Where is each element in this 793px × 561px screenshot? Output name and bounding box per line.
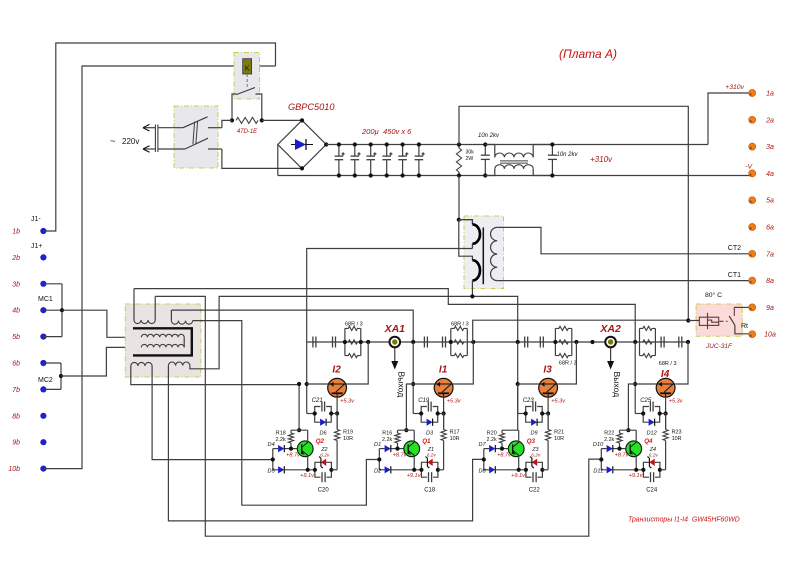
- transistor I2 (IGBT): [328, 378, 347, 397]
- svg-text:+5.3v: +5.3v: [340, 399, 355, 405]
- capacitor C21: [315, 407, 321, 414]
- pin 3a: [749, 143, 756, 150]
- svg-text:5b: 5b: [12, 334, 20, 341]
- node loop left I3: [524, 411, 528, 415]
- wire Q emitter Q2: [307, 456, 309, 470]
- pin 1b: [40, 228, 46, 234]
- wire gate drop I4: [634, 342, 636, 414]
- winding sense row 2: [141, 344, 184, 347]
- winding secondary: [491, 227, 498, 280]
- wire R to loop2 I1: [438, 469, 444, 471]
- svg-text:D12: D12: [646, 431, 657, 437]
- node loop right I3: [540, 411, 544, 415]
- resistor R19 10R: [335, 430, 340, 441]
- pin 7a: [749, 250, 756, 257]
- svg-text:3a: 3a: [766, 144, 774, 151]
- svg-text:Q4: Q4: [644, 438, 653, 445]
- thermal switch enclosure JUC-31F: [696, 304, 742, 336]
- svg-text:D4: D4: [268, 442, 275, 448]
- svg-text:(Плата А): (Плата А): [559, 47, 617, 61]
- capacitor rail C (I3 b): [539, 337, 541, 348]
- svg-text:D5: D5: [268, 469, 276, 475]
- svg-text:10n 2kv: 10n 2kv: [478, 133, 500, 139]
- pin 8a: [749, 277, 756, 284]
- svg-text:R21: R21: [554, 430, 564, 436]
- svg-text:10b: 10b: [8, 466, 20, 473]
- node Q emitter join Q1: [412, 468, 416, 472]
- svg-text:I1: I1: [439, 365, 448, 376]
- node I3 gate junction: [516, 340, 520, 344]
- node gate I2: [305, 382, 309, 386]
- node thermal tap: [686, 318, 690, 322]
- capacitor 200u 450v #1: [338, 145, 340, 157]
- capacitor 10n 2kv #2: [551, 145, 553, 156]
- wire Q collector feed Q2: [298, 384, 300, 430]
- wire +310v to pin 1a: [708, 93, 749, 145]
- transistor Q3: [508, 441, 524, 457]
- wire primary bottom: [471, 281, 473, 297]
- wire P2 feed: [459, 220, 473, 261]
- svg-text:+9.1v: +9.1v: [300, 473, 315, 479]
- svg-text:68R / 3: 68R / 3: [559, 361, 577, 367]
- winding W2: [170, 310, 172, 321]
- svg-text:8a: 8a: [766, 278, 774, 285]
- svg-text:10a: 10a: [764, 332, 776, 339]
- svg-text:+8.7v: +8.7v: [615, 452, 630, 458]
- wire W3-left to I2 gate: [131, 366, 299, 385]
- pin 6a: [749, 224, 756, 231]
- diode D3: [421, 414, 426, 423]
- relay coil K: [243, 59, 252, 74]
- svg-text:Z2: Z2: [320, 447, 327, 453]
- wire Q collector Q3: [518, 430, 520, 442]
- wire -DC bottom rail: [278, 175, 752, 177]
- capacitor 10n 2kv #1: [484, 145, 486, 156]
- wire +DC top rail: [326, 144, 708, 146]
- diode D8: [489, 466, 495, 473]
- diode D10: [607, 445, 613, 452]
- diode D6: [315, 414, 320, 423]
- svg-text:200µ 450v x 6: 200µ 450v x 6: [361, 127, 412, 136]
- svg-text:9a: 9a: [766, 305, 774, 312]
- winding driver primary strap: [133, 328, 192, 355]
- wire pole1 to 47D-1E: [222, 120, 232, 127]
- svg-text:XA1: XA1: [384, 323, 406, 335]
- node D anodes I3: [482, 457, 486, 461]
- wire mains L arrow: [143, 127, 155, 129]
- node base Q4: [617, 447, 621, 451]
- wire Q emitter Q3: [518, 456, 520, 470]
- node primary top: [457, 218, 461, 222]
- node 47D-1E right: [260, 118, 264, 122]
- resistor R16 2.2k: [395, 433, 400, 443]
- transistor Q1: [404, 441, 420, 457]
- node loop2 right I3: [540, 468, 544, 472]
- wire W4-right net: [190, 296, 518, 368]
- svg-text:I2: I2: [332, 365, 341, 376]
- wire emitter I2: [336, 397, 338, 429]
- node base Q3: [500, 447, 504, 451]
- svg-text:8b: 8b: [12, 413, 20, 420]
- capacitor rail C (I4 b): [678, 337, 680, 348]
- svg-text:R18: R18: [276, 431, 286, 437]
- svg-text:2.2k: 2.2k: [486, 437, 496, 443]
- svg-text:2.2k: 2.2k: [382, 437, 392, 443]
- capacitor 200u 450v #6: [418, 145, 420, 157]
- svg-text:XA2: XA2: [599, 323, 621, 335]
- diode D12: [643, 414, 648, 423]
- wire collector bar Q4: [620, 429, 637, 431]
- svg-text:9b: 9b: [12, 440, 20, 447]
- resistor network 68R/3: [344, 328, 346, 355]
- capacitor rail C (I4 a): [660, 337, 662, 348]
- svg-text:1b: 1b: [12, 229, 20, 236]
- wire loop left I4: [635, 413, 643, 415]
- capacitor C22: [526, 470, 532, 477]
- wire Q emitter Q1: [413, 456, 415, 470]
- choke coupling bars: [500, 160, 528, 162]
- wire loop right I4: [660, 413, 666, 415]
- svg-text:Z4: Z4: [649, 447, 656, 453]
- node rail mid: [590, 340, 594, 344]
- diode D2: [385, 466, 391, 473]
- node base Q2: [289, 447, 293, 451]
- resistor R20 2.2k: [499, 433, 504, 443]
- capacitor rail C (I3 a): [524, 337, 526, 348]
- svg-text:R17: R17: [450, 430, 460, 436]
- wire gate drop I3: [517, 342, 519, 414]
- node MC1: [60, 308, 64, 312]
- node loop right I4: [658, 411, 662, 415]
- resistor R21 10R: [546, 430, 551, 441]
- capacitor C24: [643, 470, 649, 477]
- svg-text:68R / 3: 68R / 3: [659, 361, 677, 367]
- wire loop right I2: [331, 413, 337, 415]
- wire loop left I2: [307, 413, 315, 415]
- svg-text:D11: D11: [593, 469, 603, 475]
- wire MC2 to driver transformer: [61, 347, 141, 376]
- diode D1: [385, 445, 391, 452]
- node emitter I4: [664, 411, 668, 415]
- svg-text:Q3: Q3: [527, 438, 536, 445]
- svg-text:Транзисторы I1-I4 GW45HF60WD: Транзисторы I1-I4 GW45HF60WD: [628, 517, 740, 524]
- wire 47D-1E to bridge: [262, 119, 302, 121]
- wire output rail: [307, 341, 688, 343]
- pin 4b: [40, 307, 46, 313]
- capacitor C18: [421, 470, 427, 477]
- zener Z2 6.2v: [315, 462, 321, 470]
- svg-text:R19: R19: [343, 430, 353, 436]
- wire gate I2: [307, 383, 328, 385]
- svg-text:+310v: +310v: [590, 155, 613, 164]
- transistor Q4: [626, 441, 642, 457]
- svg-text:I3: I3: [543, 365, 552, 376]
- node gate I1: [411, 382, 415, 386]
- node Q emitter join Q4: [634, 468, 638, 472]
- node I4 gate junction: [633, 340, 637, 344]
- resistor R17 10R: [441, 430, 446, 441]
- resistor network 68R/3: [450, 328, 452, 355]
- svg-text:D6: D6: [320, 431, 328, 437]
- capacitor C20: [315, 470, 321, 477]
- svg-text:10R: 10R: [554, 436, 564, 442]
- svg-text:7b: 7b: [12, 387, 20, 394]
- capacitor 200u 450v #4: [386, 145, 388, 157]
- wire primary top feed: [458, 176, 460, 220]
- thermal element: [699, 317, 718, 325]
- svg-text:6.2v: 6.2v: [320, 452, 330, 458]
- resistor network 68R/3: [639, 328, 641, 355]
- pin 9a: [749, 304, 756, 311]
- wire loop right I1: [438, 413, 444, 415]
- svg-text:10R: 10R: [343, 436, 353, 442]
- node emitter I2: [335, 411, 339, 415]
- wire W2-left net: [171, 310, 413, 342]
- svg-text:JUC-31F: JUC-31F: [705, 343, 733, 350]
- node loop2 right I1: [436, 468, 440, 472]
- node I2 collector tap: [366, 340, 370, 344]
- node loop right I1: [436, 411, 440, 415]
- node Q emitter join Q3: [517, 468, 521, 472]
- node rail right end: [686, 340, 690, 344]
- svg-text:D8: D8: [479, 469, 487, 475]
- svg-text:Z1: Z1: [427, 447, 434, 453]
- svg-text:2b: 2b: [11, 255, 20, 262]
- wire emitter I3: [547, 397, 549, 429]
- driver transformer enclosure: [125, 304, 201, 377]
- node loop left I2: [313, 411, 317, 415]
- wire D anode bracket I2: [273, 448, 278, 450]
- svg-text:3b: 3b: [12, 281, 20, 288]
- wire gate I3: [518, 383, 539, 385]
- wire base line Q2: [284, 448, 297, 450]
- svg-text:6b: 6b: [12, 361, 20, 368]
- wire W4-left net: [168, 366, 483, 521]
- svg-text:GBPC5010: GBPC5010: [288, 102, 335, 112]
- winding W4: [168, 362, 190, 366]
- wire pole2 to bridge AC2: [222, 149, 302, 168]
- capacitor 200u 450v #2: [354, 145, 356, 157]
- wire emitter line I2: [284, 469, 315, 471]
- resistor R18 2.2k: [288, 433, 293, 443]
- pin 9b: [40, 439, 46, 445]
- wire collector bar Q3: [502, 429, 519, 431]
- wire collector bar Q2: [291, 429, 308, 431]
- node 47D-1E left: [230, 118, 234, 122]
- svg-text:47D-1E: 47D-1E: [237, 129, 258, 135]
- svg-text:R16: R16: [382, 431, 392, 437]
- node loop left I4: [641, 411, 645, 415]
- pin 5a: [749, 197, 756, 204]
- svg-text:+8.7v: +8.7v: [497, 452, 512, 458]
- node D anodes I2: [271, 457, 275, 461]
- wire D anode bracket I3: [484, 448, 489, 450]
- pin 6b: [40, 360, 46, 366]
- pin 5b: [40, 334, 46, 340]
- svg-text:+8.7v: +8.7v: [286, 452, 301, 458]
- capacitor rail C (I2 b): [332, 337, 334, 348]
- svg-text:D9: D9: [531, 431, 538, 437]
- wire R to loop2 I2: [331, 469, 337, 471]
- node I1 gate junction: [411, 340, 415, 344]
- node bridge AC2: [300, 166, 304, 170]
- winding W3: [131, 362, 152, 366]
- svg-text:Rt: Rt: [741, 323, 748, 330]
- svg-text:7a: 7a: [766, 251, 774, 258]
- thermal contact: [733, 307, 735, 316]
- wire sense series link: [183, 337, 185, 347]
- svg-text:R22: R22: [604, 431, 614, 437]
- svg-text:MC2: MC2: [38, 377, 53, 384]
- svg-text:4a: 4a: [766, 171, 774, 178]
- resistor R23 10R: [663, 430, 668, 441]
- wire MC2 bracket: [43, 362, 61, 364]
- svg-text:2.2k: 2.2k: [275, 437, 285, 443]
- node base Q1: [395, 447, 399, 451]
- wire collector bar Q1: [398, 429, 415, 431]
- node D anodes I1: [377, 457, 381, 461]
- wire mains N arrow: [143, 148, 155, 150]
- svg-text:220v: 220v: [122, 137, 139, 146]
- svg-text:1a: 1a: [766, 91, 774, 98]
- svg-text:2W: 2W: [466, 156, 474, 162]
- wire emitter line I4: [613, 469, 644, 471]
- wire R to loop2 I4: [660, 469, 666, 471]
- svg-text:2.2k: 2.2k: [604, 437, 614, 443]
- node loop2 right I2: [329, 468, 333, 472]
- svg-text:C18: C18: [424, 488, 436, 494]
- wire emitter line I3: [495, 469, 526, 471]
- node emitter I1: [442, 411, 446, 415]
- svg-text:D10: D10: [593, 442, 604, 448]
- switch pole 2: [158, 148, 185, 150]
- capacitor 200u 450v #3: [370, 145, 372, 157]
- pin 10b: [40, 466, 46, 472]
- svg-text:6.2v: 6.2v: [427, 452, 437, 458]
- pin 2a: [749, 116, 756, 123]
- inductor common-mode choke bottom: [485, 169, 495, 176]
- node D anodes I4: [599, 457, 603, 461]
- node rail R30k top: [457, 142, 461, 146]
- svg-text:C23: C23: [523, 398, 535, 404]
- connector XA1: [390, 337, 401, 348]
- svg-text:C25: C25: [640, 398, 652, 404]
- capacitor 200u 450v #5: [402, 145, 404, 157]
- node MC2: [59, 374, 63, 378]
- wire base line Q4: [613, 448, 626, 450]
- svg-text:C24: C24: [646, 488, 658, 494]
- main transformer enclosure: [464, 216, 504, 289]
- transistor I1 (IGBT): [434, 378, 453, 397]
- svg-text:CT2: CT2: [728, 245, 741, 252]
- svg-text:68R / 3: 68R / 3: [345, 322, 363, 328]
- svg-text:MC1: MC1: [38, 296, 53, 303]
- wire Q collector Q1: [413, 430, 415, 442]
- svg-text:D1: D1: [374, 442, 381, 448]
- svg-text:+9.1v: +9.1v: [629, 473, 644, 479]
- svg-text:CT1: CT1: [728, 272, 741, 279]
- resistor R22 2.2k: [617, 433, 622, 443]
- wire Q collector feed Q3: [517, 384, 519, 430]
- wire W3-right net: [152, 366, 273, 460]
- node loop right I2: [329, 411, 333, 415]
- wire Q collector Q2: [307, 430, 309, 442]
- svg-text:Q2: Q2: [316, 438, 325, 445]
- svg-text:I4: I4: [661, 369, 670, 380]
- pin 7b: [40, 386, 46, 392]
- svg-text:30k: 30k: [466, 150, 475, 156]
- winding sense row 1: [141, 334, 184, 337]
- svg-text:Выход: Выход: [612, 372, 622, 398]
- svg-text:D2: D2: [374, 469, 382, 475]
- wire Q emitter Q4: [635, 456, 637, 470]
- diode D4: [278, 445, 284, 452]
- pin 3b: [40, 281, 46, 287]
- transistor Q2: [297, 441, 313, 457]
- wire collector I1: [453, 342, 473, 384]
- bridge rectifier GBPC5010: [278, 120, 326, 168]
- wire MC1 to driver transformer: [62, 310, 141, 337]
- wire Q collector feed Q4: [628, 384, 635, 430]
- svg-text:+5.3v: +5.3v: [669, 399, 684, 405]
- resistor 47D-1E: [236, 117, 258, 123]
- diode D5: [278, 466, 284, 473]
- wire gate I1: [413, 383, 434, 385]
- svg-text:C19: C19: [418, 398, 430, 404]
- wire base line Q1: [391, 448, 404, 450]
- capacitor rail C (I1 b): [442, 337, 444, 348]
- node loop2 left I4: [641, 468, 645, 472]
- svg-text:2a: 2a: [765, 117, 774, 124]
- thermal actuator dashed: [720, 320, 728, 322]
- capacitor C19: [421, 407, 427, 414]
- node primary bottom junction: [470, 294, 474, 298]
- wire contact to pin 9a: [734, 306, 749, 308]
- wire gate drop I1: [412, 342, 414, 414]
- svg-text:80° C: 80° C: [705, 291, 722, 299]
- node emitter I3: [546, 411, 550, 415]
- svg-text:Q1: Q1: [422, 438, 431, 445]
- wire emitter I4: [665, 397, 667, 429]
- svg-text:6.2v: 6.2v: [531, 452, 541, 458]
- mains plug: [154, 125, 156, 153]
- pin 8b: [40, 413, 46, 419]
- switch linkage: [193, 122, 195, 145]
- wire MC1 bracket: [43, 283, 62, 285]
- wire primary mid-tap: [307, 249, 473, 343]
- svg-text:C22: C22: [529, 488, 541, 494]
- pin 4a: [749, 170, 756, 177]
- diode D7: [489, 445, 495, 452]
- pin 1a: [749, 90, 756, 97]
- inductor common-mode choke top: [485, 145, 495, 158]
- wire gate I4: [635, 383, 656, 385]
- relay linkage (dashed): [246, 74, 248, 88]
- switch pole 1: [158, 127, 183, 129]
- svg-text:R20: R20: [487, 431, 497, 437]
- pin 2b: [40, 254, 46, 260]
- capacitor rail C (I1 a): [423, 337, 425, 348]
- node bridge AC1: [300, 118, 304, 122]
- zener Z3 6.2v: [526, 462, 532, 470]
- node gate I3: [516, 382, 520, 386]
- diode D9: [526, 414, 531, 423]
- svg-text:5a: 5a: [766, 198, 774, 205]
- wire collector I3: [558, 342, 577, 384]
- wire Q collector Q4: [635, 430, 637, 442]
- wire bridge minus to bottom rail: [277, 145, 279, 176]
- svg-text:D7: D7: [479, 442, 487, 448]
